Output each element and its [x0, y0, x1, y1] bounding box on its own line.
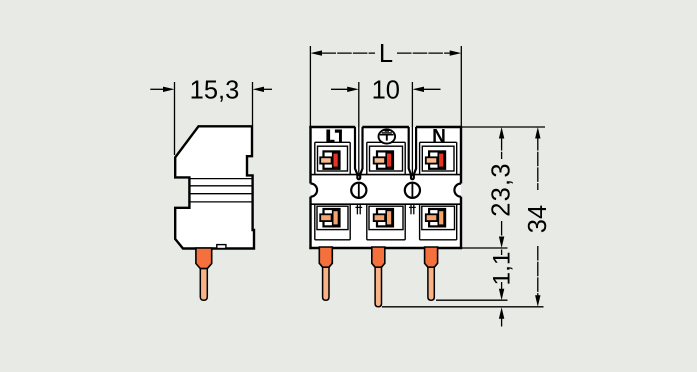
lower module 2 actuator frame: [377, 209, 393, 226]
svg-text:15,3: 15,3: [190, 77, 240, 105]
dimension 34 line: [537, 136, 539, 190]
dimension L extension lines: [309, 46, 311, 126]
lower module 2 step line: [367, 239, 405, 241]
lower module 2 recess: [369, 206, 403, 229]
dimension 15,3 left arrow: [150, 88, 164, 90]
front pin 3 thin part: [428, 267, 434, 300]
upper module 2 actuator red lever: [386, 153, 392, 168]
lower module 1 actuator orange bar: [320, 214, 331, 221]
lower module 2 actuator lever: [386, 210, 392, 225]
screw circle 2: [405, 183, 420, 198]
front view top edge module 3: [416, 126, 462, 128]
upper module 2 label line: [367, 141, 405, 143]
upper module 3 label line: [420, 141, 457, 143]
earth symbol circle: [379, 130, 396, 144]
side view band line 2: [189, 185, 251, 187]
side view pin wide part: [196, 248, 212, 269]
earth symbol stem: [386, 135, 388, 141]
front pin 2 thin part: [375, 267, 381, 307]
extension line pin2 tip: [382, 306, 544, 308]
top extension line right: [461, 126, 545, 128]
upper module 1 label line: [315, 141, 350, 143]
label L1 (rotated 180, drawn as shapes): [326, 130, 342, 143]
upper module 1 actuator orange bar: [320, 157, 331, 163]
upper module 2 side walls: [366, 142, 368, 174]
dimension 1,1: [501, 250, 503, 256]
side view pin thin part: [200, 269, 207, 301]
side view band line 4: [189, 201, 251, 203]
svg-text:1,1: 1,1: [488, 251, 515, 285]
lower module 3 actuator frame: [429, 209, 445, 226]
side view band line 3: [189, 193, 251, 195]
lower module 3 side walls: [419, 204, 421, 240]
front view bottom edge: [309, 247, 462, 249]
dimension 15,3 extension line right: [252, 82, 254, 126]
upper module 2 actuator orange bar: [374, 157, 385, 163]
upper module 3 side walls: [419, 142, 421, 174]
lower module 1 step line: [315, 239, 350, 241]
lower module 2 actuator orange bar: [374, 214, 385, 221]
svg-text:N: N: [432, 126, 446, 147]
slot between upper modules 2-3: [409, 127, 416, 179]
dimension 10 arrows: [331, 88, 348, 90]
side view housing: [175, 126, 254, 248]
lower module 3 actuator orange bar: [426, 214, 437, 221]
front pin 1 wide part: [319, 247, 332, 267]
dimension 10 extension lines: [358, 82, 360, 176]
front pin 3 wide part: [425, 247, 438, 267]
front pin 2 wide part: [372, 247, 385, 267]
lower joint mark 2: [410, 204, 412, 214]
band bottom line: [311, 203, 462, 205]
lower module 3 actuator lever: [438, 210, 444, 225]
lower joint mark 1: [356, 204, 358, 214]
front view top edge module 1: [309, 126, 355, 128]
front view body: [311, 127, 462, 248]
upper module 3 recess: [422, 146, 454, 171]
lower module 1 actuator lever: [333, 210, 339, 225]
dimension 15,3 extension line left: [174, 82, 176, 155]
upper module 3 actuator orange bar: [426, 157, 437, 163]
right edge notch: [454, 184, 461, 197]
screw circle 1: [351, 183, 366, 198]
front pin 1 thin part: [323, 267, 329, 300]
upper module 1 actuator frame: [324, 151, 340, 168]
svg-text:23,3: 23,3: [488, 162, 516, 216]
extension line housing bottom: [462, 247, 508, 249]
upper module 3 actuator red lever: [438, 153, 444, 168]
front view top edge module 2: [362, 126, 409, 128]
extension line pin3 tip: [436, 299, 508, 301]
upper module 2 actuator frame: [377, 151, 393, 168]
lower module 2 side walls: [366, 204, 368, 240]
slot between upper modules 1-2: [355, 127, 363, 179]
upper module 2 recess: [370, 146, 403, 171]
upper module 1 side walls: [314, 142, 316, 174]
lower module 1 side walls: [314, 204, 316, 240]
left edge notch: [311, 184, 318, 197]
front view right edge: [460, 126, 462, 184]
svg-text:10: 10: [372, 77, 400, 105]
upper module 3 actuator frame: [429, 151, 445, 168]
band top line: [311, 174, 462, 176]
upper module 1 actuator red lever: [333, 153, 339, 168]
dimension L line + arrows: [322, 52, 376, 54]
lower module 1 recess: [317, 206, 348, 229]
earth symbol bars: [385, 130, 389, 132]
side view band line 1: [189, 178, 251, 180]
svg-text:L: L: [379, 40, 393, 68]
lower module 1 actuator frame: [324, 209, 340, 226]
svg-text:34: 34: [524, 205, 552, 233]
lower module 3 recess: [422, 206, 455, 229]
upper module 1 recess: [318, 146, 348, 171]
front view left edge: [309, 126, 311, 184]
dimension 23,3 line: [501, 136, 503, 159]
side view bottom tab: [217, 245, 226, 249]
dimension 15,3 right arrow: [263, 88, 272, 90]
lower module 3 step line: [420, 239, 457, 241]
